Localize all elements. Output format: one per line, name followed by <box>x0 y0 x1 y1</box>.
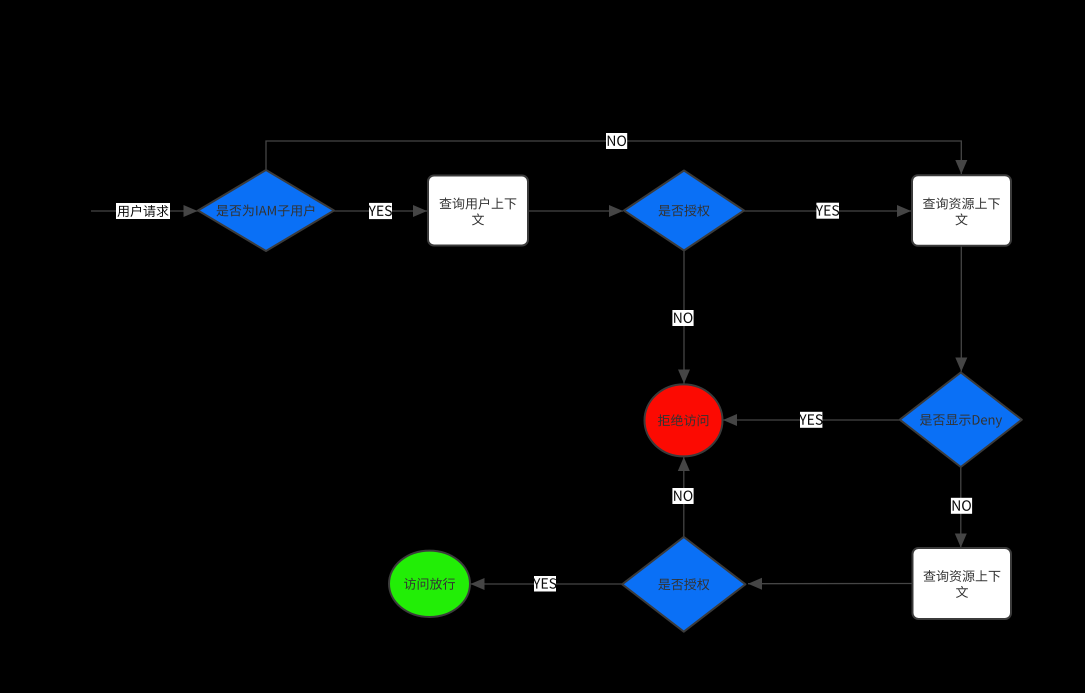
terminal C1 拒绝访问 (red) <box>645 384 723 456</box>
wire: D2 YES to box B2 <box>744 205 911 217</box>
process B3 查询资源上下文 <box>913 548 1012 619</box>
wire: D3 YES left to red circle C1 <box>723 414 900 426</box>
label YES (D2 to B2) <box>816 203 839 219</box>
label NO (top elbow) <box>606 133 627 149</box>
wire: D2 NO down to red circle C1 <box>678 251 690 384</box>
label YES (D4 to C2) <box>533 576 556 592</box>
wire: D1 YES to box B1 <box>334 205 427 217</box>
terminal C2 访问放行 (green) <box>389 551 470 617</box>
wire: B2 down to decision D3 <box>955 246 967 372</box>
process B2 查询资源上下文 <box>912 175 1011 246</box>
process B1 查询用户上下文 <box>428 176 528 246</box>
wire: D4 YES left to green circle C2 <box>471 578 623 590</box>
wire: D1 NO top elbow to B2 top <box>266 141 967 174</box>
wire: start to decision D1 <box>91 205 198 217</box>
label YES (D1 to B1) <box>369 203 393 219</box>
wire: B3 left to decision D4 <box>748 578 913 590</box>
decision D4 是否授权 <box>622 537 745 632</box>
decision D2 是否授权 <box>624 171 744 251</box>
wire: B1 to decision D2 <box>528 205 623 217</box>
decision D3 是否显示Deny <box>900 372 1022 467</box>
decision D1 是否为IAM子用户 <box>198 170 334 251</box>
label NO (D3 to B3) <box>951 498 972 514</box>
label YES (D3 to C1) <box>799 412 822 428</box>
label NO (D4 to C1) <box>672 488 693 504</box>
wire: D4 NO up to red circle C1 <box>678 457 690 537</box>
label NO (D2 to C1) <box>672 310 693 326</box>
label 用户请求 <box>116 203 170 219</box>
wire: D3 NO down to box B3 <box>955 467 967 548</box>
